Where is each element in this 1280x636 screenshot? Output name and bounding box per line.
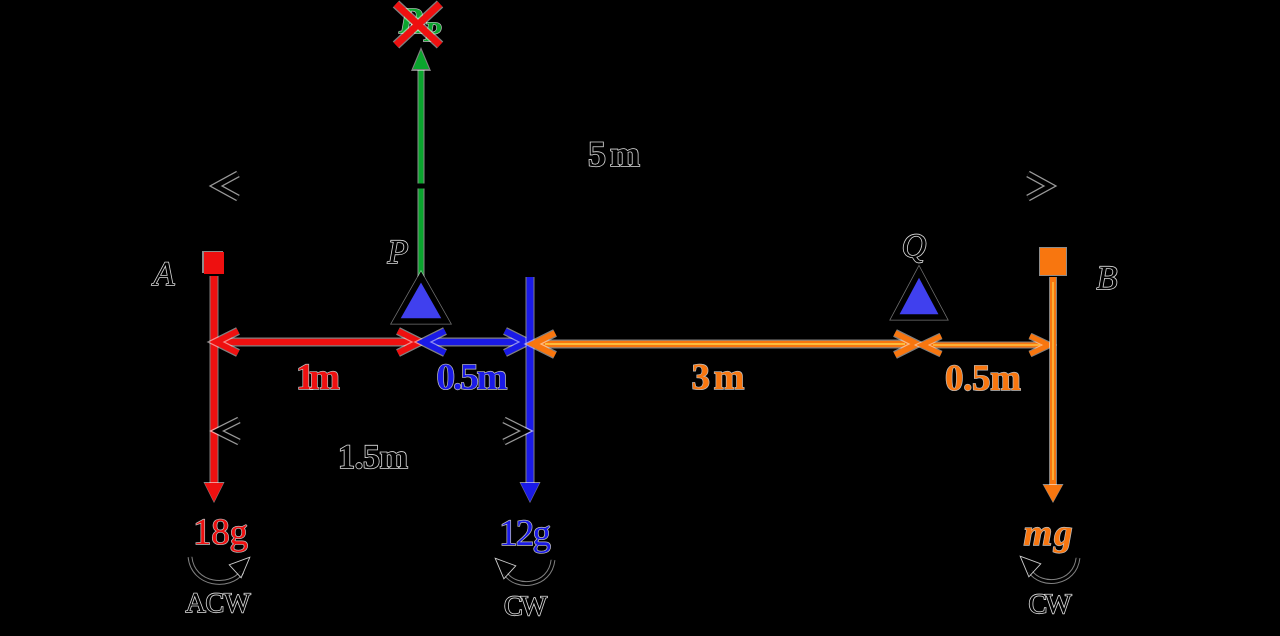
svg-text:3m: 3m (692, 357, 745, 398)
point B orange square (1039, 247, 1067, 276)
svg-text:0.5m: 0.5m (945, 358, 1021, 399)
0.5m dimension arrow right (orange, double-headed) (925, 342, 1046, 349)
18g force line at A (red, downward) (210, 276, 219, 484)
svg-text:ACW: ACW (186, 588, 252, 619)
1.5m dimension chevrons (black) (217, 420, 239, 442)
svg-text:P: P (387, 234, 409, 271)
red arrowhead (down) (204, 482, 225, 503)
0.5m dimension arrow (blue, double-headed) (426, 338, 524, 347)
svg-text:mg: mg (1024, 513, 1073, 554)
3m dimension arrow (orange, double-headed) (536, 340, 914, 349)
svg-text:18g: 18g (193, 512, 248, 553)
svg-text:B: B (1097, 260, 1118, 297)
5m dimension line (black, crosses green arrow) (217, 184, 1050, 189)
support P triangle (blue, black outline) (396, 277, 446, 321)
support Q triangle (blue, black outline) (895, 272, 943, 317)
3m arrow yellow center highlight (545, 343, 905, 345)
red cross-out X (396, 4, 440, 45)
ACW arrowhead (230, 558, 249, 577)
svg-text:1m: 1m (296, 357, 340, 398)
svg-text:1.5m: 1.5m (338, 439, 408, 476)
5m left chevron (216, 174, 238, 198)
svg-text:12g: 12g (499, 513, 551, 554)
mg force line at B (orange, downward) (1049, 277, 1057, 486)
blue arrowhead (down) (520, 482, 541, 503)
reaction force arrow at P (green, upward) : wire/shaft (418, 70, 425, 277)
0.5m arrow yellow center highlight (933, 344, 1040, 346)
ACW rotation arc (190, 557, 242, 582)
svg-text:CW: CW (504, 591, 548, 622)
CW rotation arc (12g) (505, 560, 553, 584)
green arrowhead (up) (411, 47, 431, 71)
svg-text:0.5m: 0.5m (437, 357, 508, 398)
12g force line (blue, downward) (526, 277, 535, 484)
mg line yellow center highlight (1052, 282, 1054, 480)
orange arrowhead (down) (1043, 484, 1064, 503)
5m right chevron (1028, 174, 1050, 198)
point A red square (202, 251, 223, 273)
svg-text:Q: Q (902, 228, 927, 265)
CW rotation arc (mg) (1030, 558, 1078, 582)
svg-text:A: A (152, 256, 175, 293)
CW arrowhead (mg) (1021, 557, 1040, 576)
1m dimension arrow (red, double-headed) (220, 338, 416, 347)
CW arrowhead (12g) (496, 559, 515, 578)
svg-text:CW: CW (1029, 589, 1073, 620)
svg-text:5m: 5m (588, 134, 640, 174)
